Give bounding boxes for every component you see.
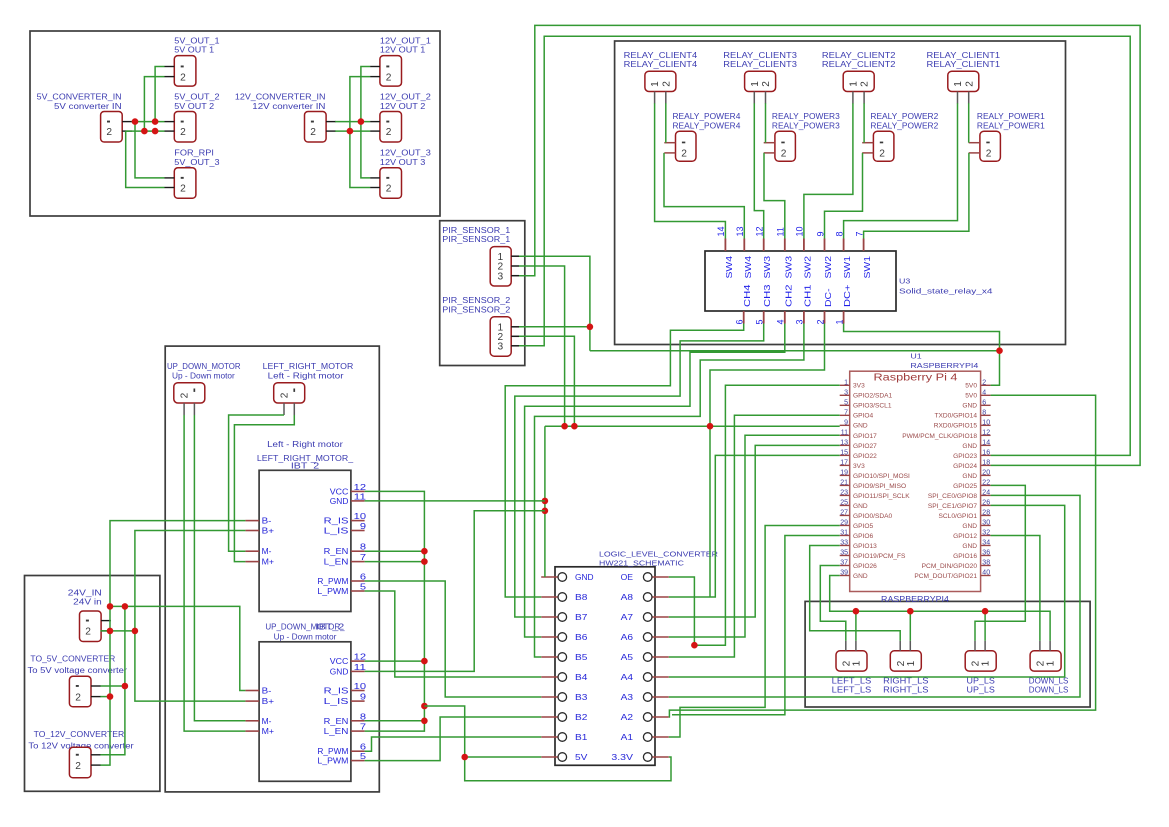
svg-text:12V OUT 2: 12V OUT 2 (380, 102, 425, 111)
svg-text:GPIO4: GPIO4 (853, 413, 873, 420)
svg-text:12: 12 (354, 482, 367, 492)
wire RPi pin39 GND to limit switch commons (830, 576, 1050, 641)
svg-text:31: 31 (840, 529, 848, 536)
svg-text:GND: GND (962, 543, 977, 550)
RPi pin 7 GPIO4 (840, 414, 850, 416)
svg-text:2: 2 (761, 81, 772, 87)
svg-text:5V OUT 1: 5V OUT 1 (174, 46, 214, 55)
IBT pin 8 R_EN (351, 720, 365, 722)
wire IBT1 R_EN tap (365, 550, 425, 552)
svg-text:7: 7 (360, 552, 367, 562)
RPi pin 32 GPIO12 (981, 534, 991, 536)
svg-text:HW221_SCHEMATIC: HW221_SCHEMATIC (599, 558, 685, 567)
svg-text:M+: M+ (262, 726, 275, 736)
svg-text:RELAY_CLIENT2: RELAY_CLIENT2 (822, 51, 896, 60)
junction LLC 5V (461, 754, 468, 761)
svg-text:GPIO26: GPIO26 (853, 563, 877, 570)
wire IBT1 L_EN tap (365, 561, 425, 563)
IBT pin M+ (245, 561, 259, 563)
svg-text:L_EN: L_EN (324, 557, 349, 567)
svg-text:GPIO6: GPIO6 (853, 533, 873, 540)
U3 pin 2 DC- (bottom) (824, 311, 826, 324)
LLC pin A6 (652, 636, 669, 638)
svg-text:REALY_POWER1: REALY_POWER1 (977, 112, 1045, 121)
connector 5V_OUT_2 (174, 112, 196, 143)
svg-text:U1: U1 (910, 352, 921, 361)
LLC pin GND (541, 576, 558, 578)
svg-text:26: 26 (982, 499, 990, 506)
svg-text:20: 20 (982, 469, 990, 476)
svg-text:Left - Right motor: Left - Right motor (268, 372, 344, 381)
LLC pin B5 (541, 656, 558, 658)
svg-text:CH1: CH1 (802, 284, 812, 307)
IC UP_DOWN_MOTOR_IBT_2 body (259, 642, 351, 782)
wire RPi GPIO8 to LLC A3 (669, 495, 1080, 697)
svg-text:VCC: VCC (330, 486, 349, 496)
svg-text:CH2: CH2 (783, 284, 793, 307)
IBT pin 10 R_IS (351, 520, 365, 522)
wire IBT2 VCC tap (365, 660, 425, 662)
connector 12V_OUT_3 (380, 168, 402, 199)
LLC pin B2 (541, 716, 558, 718)
svg-text:5: 5 (360, 751, 367, 761)
svg-text:24: 24 (982, 489, 990, 496)
svg-text:38: 38 (982, 559, 990, 566)
svg-text:24V in: 24V in (73, 598, 102, 607)
svg-text:2: 2 (964, 81, 975, 87)
svg-text:5V_OUT_3: 5V_OUT_3 (174, 158, 219, 167)
svg-text:GPIO5: GPIO5 (853, 523, 873, 530)
svg-text:GPIO0/SDA0: GPIO0/SDA0 (853, 513, 893, 520)
svg-text:SW4: SW4 (724, 256, 734, 279)
RPi pin 21 GPIO9/SPI_MISO (840, 484, 850, 486)
svg-text:R_PWM: R_PWM (317, 576, 348, 586)
wire 12V_OUT_1/3 pin2 bus (350, 77, 370, 188)
connector UP_DOWN_MOTOR (174, 383, 205, 403)
junction OE node (691, 642, 698, 649)
svg-text:GPIO24: GPIO24 (953, 463, 977, 470)
wire 12V rail pin2 row (335, 130, 370, 132)
wire RPi GPIO12 to DOWN_LS pin2 (991, 536, 1040, 641)
svg-text:CH4: CH4 (742, 284, 752, 307)
connector UP_LS (965, 651, 996, 671)
wire IBT1 L_PWM to LLC B4 (365, 591, 542, 677)
wire REALY_POWER2 pin2 to U3 SW (825, 153, 863, 239)
svg-text:12V_CONVERTER_IN: 12V_CONVERTER_IN (235, 93, 326, 102)
connector 5V_OUT_3 (174, 168, 196, 199)
RPi pin 20 GND (981, 474, 991, 476)
svg-text:14: 14 (982, 439, 990, 446)
svg-text:3: 3 (498, 341, 504, 352)
LLC pin B1 (541, 736, 558, 738)
svg-text:B5: B5 (575, 652, 588, 662)
svg-text:RASPBERRYPI4: RASPBERRYPI4 (881, 595, 950, 604)
svg-text:2: 2 (386, 127, 392, 138)
svg-text:5V_OUT_1: 5V_OUT_1 (174, 36, 219, 45)
svg-text:GPIO12: GPIO12 (953, 533, 977, 540)
wire RELAY_CLIENT2 pin2 to REALY_POWER2 pin1 (863, 103, 865, 143)
svg-text:A2: A2 (621, 712, 634, 722)
svg-text:2: 2 (180, 72, 186, 83)
IBT pin 6 R_PWM (351, 750, 365, 752)
U3 pin 9 SW2 (top) (824, 239, 826, 252)
svg-text:5V OUT 2: 5V OUT 2 (174, 102, 214, 111)
svg-text:10: 10 (982, 419, 990, 426)
svg-text:GND: GND (853, 503, 868, 510)
junction GND bus taps (542, 498, 549, 505)
svg-text:SW4: SW4 (743, 256, 753, 279)
pin 1 marker 24V_IN (86, 620, 89, 622)
RPi pin 37 GPIO26 (840, 564, 850, 566)
svg-text:GND: GND (962, 443, 977, 450)
svg-text:21: 21 (840, 479, 848, 486)
wire PIR_SENSOR_1 pin1 to 5V line (519, 256, 590, 351)
wire REALY_POWER4 pin2 to U3 SW (664, 153, 744, 239)
svg-text:13: 13 (840, 439, 848, 446)
svg-text:2: 2 (681, 149, 687, 160)
svg-text:12: 12 (354, 652, 367, 662)
U3 pin 1 DC+ (bottom) (843, 311, 845, 324)
svg-text:GPIO16: GPIO16 (953, 553, 977, 560)
svg-text:SW1: SW1 (842, 256, 852, 279)
svg-text:11: 11 (354, 491, 367, 501)
LLC pin A1 (652, 736, 669, 738)
connector RELAY_CLIENT1 (948, 71, 979, 91)
svg-text:PIR_SENSOR_1: PIR_SENSOR_1 (442, 235, 510, 244)
RPi pin 38 PCM_DIN/GPIO20 (981, 564, 991, 566)
svg-text:17: 17 (840, 459, 848, 466)
connector RELAY_CLIENT2 (843, 71, 874, 91)
RPi pin 5 GPIO3/SCL1 (840, 404, 850, 406)
svg-text:TXD0/GPIO14: TXD0/GPIO14 (934, 413, 977, 420)
IBT pin 11 GND (351, 500, 365, 502)
svg-text:GND: GND (962, 523, 977, 530)
IBT pin M+ (245, 730, 259, 732)
wire RELAY_CLIENT1 pin1 to U3 SW (844, 103, 958, 238)
wire RPi GPIO17 to LLC A6 (669, 435, 840, 637)
connector RELAY_CLIENT4 (645, 71, 676, 91)
svg-text:2: 2 (75, 761, 81, 772)
svg-text:VCC: VCC (330, 656, 349, 666)
wire UP_DOWN_MOTOR pin2 to IBT2 M+ (184, 415, 245, 731)
wire 5V rail pin2 row (126, 130, 165, 132)
svg-text:3V3: 3V3 (853, 463, 865, 470)
svg-text:1: 1 (953, 81, 964, 87)
svg-text:B+: B+ (262, 526, 275, 536)
svg-text:B7: B7 (575, 612, 588, 622)
wire RPi GPIO22 to LLC A8 (669, 455, 840, 597)
connector REALY_POWER4 (676, 131, 697, 161)
svg-text:LOGIC_LEVEL_CONVERTER: LOGIC_LEVEL_CONVERTER (599, 549, 718, 558)
svg-text:10: 10 (354, 681, 367, 691)
wire IBT1 GND to GND bus (365, 500, 545, 502)
wire 12V rail pin1 row (335, 121, 370, 123)
connector REALY_POWER3 (775, 131, 796, 161)
svg-text:1: 1 (844, 379, 848, 386)
svg-text:5V_CONVERTER_IN: 5V_CONVERTER_IN (37, 93, 122, 102)
pin 1 marker REALY_POWER3 (781, 142, 784, 144)
svg-text:5: 5 (360, 582, 367, 592)
svg-text:PIR_SENSOR_1: PIR_SENSOR_1 (442, 226, 510, 235)
LLC pin OE (652, 576, 669, 578)
pin 1 marker TO_5V_CONVERTER (76, 685, 79, 687)
svg-text:M-: M- (262, 546, 272, 556)
RPi pin 18 GPIO24 (981, 464, 991, 466)
LLC pin B3 (541, 696, 558, 698)
LLC pin 3.3V (652, 756, 669, 758)
IBT pin 10 R_IS (351, 690, 365, 692)
RPi pin 31 GPIO6 (840, 534, 850, 536)
svg-text:B1: B1 (575, 732, 588, 742)
svg-text:12V_OUT_3: 12V_OUT_3 (380, 149, 431, 158)
IBT pin B+ (245, 530, 259, 532)
svg-text:16: 16 (982, 449, 990, 456)
LLC pin B8 (541, 596, 558, 598)
IBT pin 5 L_PWM (351, 760, 365, 762)
svg-text:GPIO11/SPI_SCLK: GPIO11/SPI_SCLK (853, 493, 910, 500)
wire RPi GPIO27 to LLC A7 (669, 445, 840, 617)
svg-text:18: 18 (982, 459, 990, 466)
svg-text:8: 8 (360, 711, 367, 721)
connector 12V_CONVERTER_IN (305, 112, 327, 143)
svg-text:2: 2 (982, 379, 986, 386)
24V input section box (25, 576, 160, 792)
junction DC+/5V line (996, 347, 1003, 354)
svg-text:1: 1 (750, 81, 761, 87)
connector PIR_SENSOR_2 (490, 317, 511, 356)
IC LOGIC_LEVEL_CONVERTER body (555, 567, 655, 766)
IBT pin 12 VCC (351, 490, 365, 492)
pin 1 marker 12V_OUT_1 (386, 66, 389, 68)
svg-text:RELAY_CLIENT1: RELAY_CLIENT1 (927, 51, 1001, 60)
wire REALY_POWER3 pin2 to U3 SW (764, 153, 785, 239)
LLC pin A8 (652, 596, 669, 598)
wire 5V_OUT_1 pin2 drop (144, 77, 164, 132)
svg-text:5V: 5V (575, 752, 588, 762)
svg-text:DC-: DC- (823, 288, 833, 307)
svg-text:REALY_POWER3: REALY_POWER3 (772, 112, 840, 121)
wire TO_5V pin1 tap (100, 685, 125, 687)
svg-text:2: 2 (860, 81, 871, 87)
svg-text:19: 19 (840, 469, 848, 476)
LLC pin A7 (652, 616, 669, 618)
svg-text:M+: M+ (262, 557, 275, 567)
svg-text:2: 2 (180, 127, 186, 138)
RPi pin 23 GPIO11/SPI_SCLK (840, 494, 850, 496)
svg-text:PWM/PCM_CLK/GPIO18: PWM/PCM_CLK/GPIO18 (902, 433, 977, 440)
IBT pin 9 L_IS (351, 530, 365, 532)
svg-text:B4: B4 (575, 672, 588, 682)
wire IBT2 R_PWM to LLC B1 (365, 737, 542, 751)
svg-text:REALY_POWER1: REALY_POWER1 (977, 121, 1045, 130)
svg-text:A3: A3 (621, 692, 634, 702)
svg-text:23: 23 (840, 489, 848, 496)
svg-text:7: 7 (360, 722, 367, 732)
connector RELAY_CLIENT3 (745, 71, 776, 91)
RPi pin 39 GND (840, 574, 850, 576)
LLC pin B6 (541, 636, 558, 638)
IBT pin B- (245, 520, 259, 522)
svg-text:GPIO10/SPI_MOSI: GPIO10/SPI_MOSI (853, 473, 910, 480)
IBT pin 6 R_PWM (351, 580, 365, 582)
junction 5V rails (132, 118, 139, 125)
pin 1 marker TO_12V_CONVERTER (76, 754, 79, 756)
wire LLC 5V row (465, 756, 542, 758)
svg-text:30: 30 (982, 519, 990, 526)
svg-text:GND: GND (330, 496, 349, 506)
svg-text:R_EN: R_EN (324, 716, 349, 726)
svg-text:3: 3 (844, 389, 848, 396)
svg-text:SW2: SW2 (802, 256, 812, 279)
svg-text:27: 27 (840, 509, 848, 516)
svg-text:2: 2 (106, 127, 112, 138)
svg-text:3.3V: 3.3V (611, 752, 633, 762)
svg-text:B2: B2 (575, 712, 588, 722)
svg-text:DOWN_LS: DOWN_LS (1029, 685, 1069, 694)
svg-text:To 5V voltage converter: To 5V voltage converter (28, 666, 128, 675)
svg-text:SPI_CE1/GPIO7: SPI_CE1/GPIO7 (928, 503, 977, 510)
wire RPi GPIO4 to LLC A5 (669, 415, 840, 657)
svg-text:SW3: SW3 (783, 256, 793, 279)
svg-text:GND: GND (853, 573, 868, 580)
svg-text:GPIO25: GPIO25 (953, 483, 977, 490)
svg-text:R_IS: R_IS (324, 686, 349, 696)
svg-text:OE: OE (621, 572, 634, 582)
connector 5V_CONVERTER_IN J? (101, 112, 123, 143)
wire 24V line to IBT2 B- (110, 606, 245, 690)
svg-text:32: 32 (982, 529, 990, 536)
svg-text:A6: A6 (621, 632, 634, 642)
svg-text:2: 2 (386, 72, 392, 83)
svg-text:2: 2 (75, 692, 81, 703)
svg-text:GND: GND (330, 666, 349, 676)
svg-text:25: 25 (840, 499, 848, 506)
wire 5V line to DC+ node (590, 350, 1000, 352)
svg-text:U3: U3 (899, 277, 910, 286)
wire U3 CH4 to LLC B8 (505, 324, 744, 598)
junction LS GND trunk (853, 608, 860, 615)
power distribution section box (30, 31, 440, 216)
svg-text:5: 5 (844, 399, 848, 406)
svg-text:6: 6 (982, 399, 986, 406)
RPi pin 27 GPIO0/SDA0 (840, 514, 850, 516)
wire RELAY_CLIENT1 pin2 to REALY_POWER1 pin1 (968, 103, 970, 143)
wire U3 CH2 to LLC B6 (525, 324, 785, 638)
svg-text:CH3: CH3 (762, 284, 772, 307)
svg-text:Raspberry Pi 4: Raspberry Pi 4 (874, 373, 958, 384)
junction GND trunk (561, 423, 568, 430)
svg-text:2: 2 (879, 149, 885, 160)
svg-text:RELAY_CLIENT4: RELAY_CLIENT4 (624, 60, 698, 69)
wire GND trunk (RPi pin9) (545, 425, 840, 427)
wire TO_5V pin2 tap (100, 696, 110, 698)
svg-text:12V converter IN: 12V converter IN (252, 102, 325, 111)
svg-text:35: 35 (840, 549, 848, 556)
IBT pin M- (245, 550, 259, 552)
RPi pin 15 GPIO22 (840, 454, 850, 456)
svg-text:GPIO13: GPIO13 (853, 543, 877, 550)
svg-text:REALY_POWER4: REALY_POWER4 (673, 121, 742, 130)
svg-text:GND: GND (962, 403, 977, 410)
svg-text:3V3: 3V3 (853, 383, 865, 390)
wire REALY_POWER1 pin2 to U3 SW (864, 153, 969, 239)
svg-text:R_IS: R_IS (324, 516, 349, 526)
wire IBT1 B- to 24V bus (100, 521, 245, 766)
junction 12V rails (358, 118, 365, 125)
svg-text:2: 2 (310, 127, 316, 138)
wire RELAY_CLIENT4 pin1 to U3 SW (655, 103, 726, 238)
IBT pin M- (245, 720, 259, 722)
wire PIR_SENSOR_2 pin3 to RPi GPIO23 (inner trunk) (519, 36, 1130, 455)
svg-text:B6: B6 (575, 632, 588, 642)
wire RPi GPIO6 stub route (672, 536, 840, 715)
svg-text:RELAY_CLIENT2: RELAY_CLIENT2 (822, 60, 896, 69)
connector TO_5V_CONVERTER (69, 676, 91, 707)
svg-text:UP_LS: UP_LS (967, 685, 995, 694)
svg-text:2: 2 (180, 183, 186, 194)
svg-text:RASPBERRYPI4: RASPBERRYPI4 (910, 361, 978, 370)
svg-text:PCM_DOUT/GPIO21: PCM_DOUT/GPIO21 (914, 573, 977, 580)
U3 pin 10 SW2 (top) (803, 239, 805, 252)
svg-text:Up - Down motor: Up - Down motor (172, 372, 235, 381)
svg-text:LEFT_RIGHT_MOTOR: LEFT_RIGHT_MOTOR (263, 362, 354, 371)
U3 pin 4 CH2 (bottom) (784, 311, 786, 324)
svg-text:IBT_2: IBT_2 (316, 623, 344, 632)
svg-text:B3: B3 (575, 692, 588, 702)
connector LEFT_LS (836, 651, 867, 671)
wire GND trunk down to LLC A8 row (709, 426, 711, 597)
svg-text:FOR_RPI: FOR_RPI (174, 149, 214, 158)
svg-text:Left - Right motor: Left - Right motor (267, 440, 343, 449)
connector DOWN_LS (1030, 651, 1061, 671)
wire 12V_OUT_1/3 pin1 bus (361, 67, 370, 178)
svg-text:24V_IN: 24V_IN (68, 588, 102, 597)
svg-text:12: 12 (982, 429, 990, 436)
svg-text:TO_5V_CONVERTER: TO_5V_CONVERTER (30, 655, 115, 664)
pin 1 marker 12V_OUT_3 (386, 177, 389, 179)
RPi pin 25 GND (840, 504, 850, 506)
svg-text:1: 1 (849, 81, 860, 87)
IBT pin 7 L_EN (351, 561, 365, 563)
svg-text:8: 8 (982, 409, 986, 416)
svg-text:RELAY_CLIENT1: RELAY_CLIENT1 (927, 60, 1001, 69)
svg-text:11: 11 (841, 429, 848, 436)
svg-text:GPIO17: GPIO17 (853, 433, 877, 440)
svg-text:15: 15 (840, 449, 848, 456)
svg-text:PIR_SENSOR_2: PIR_SENSOR_2 (442, 296, 510, 305)
junction converter taps (122, 683, 129, 690)
svg-text:12V OUT 3: 12V OUT 3 (380, 158, 425, 167)
svg-text:LEFT_LS: LEFT_LS (832, 685, 872, 694)
pin 1 marker REALY_POWER1 (986, 142, 989, 144)
pin 1 marker 12V_CONVERTER_IN (311, 121, 314, 123)
svg-text:37: 37 (840, 559, 848, 566)
wire IBT2 L_PWM to LLC B2 (365, 717, 542, 761)
RPi pin 22 GPIO25 (981, 484, 991, 486)
U3 pin 12 SW3 (top) (763, 239, 765, 252)
RPi pin 30 GND (981, 524, 991, 526)
U3 pin 8 SW1 (top) (843, 239, 845, 252)
U3 pin 11 SW3 (top) (784, 239, 786, 252)
svg-text:9: 9 (360, 521, 367, 531)
IBT pin 12 VCC (351, 660, 365, 662)
svg-text:11: 11 (354, 662, 367, 672)
IC LEFT_RIGHT_MOTOR_IBT_2 body (259, 470, 351, 611)
RPi pin 29 GPIO5 (840, 524, 850, 526)
svg-text:PIR_SENSOR_2: PIR_SENSOR_2 (442, 305, 510, 314)
RPi pin 14 GND (981, 444, 991, 446)
svg-text:12V OUT 1: 12V OUT 1 (380, 46, 425, 55)
